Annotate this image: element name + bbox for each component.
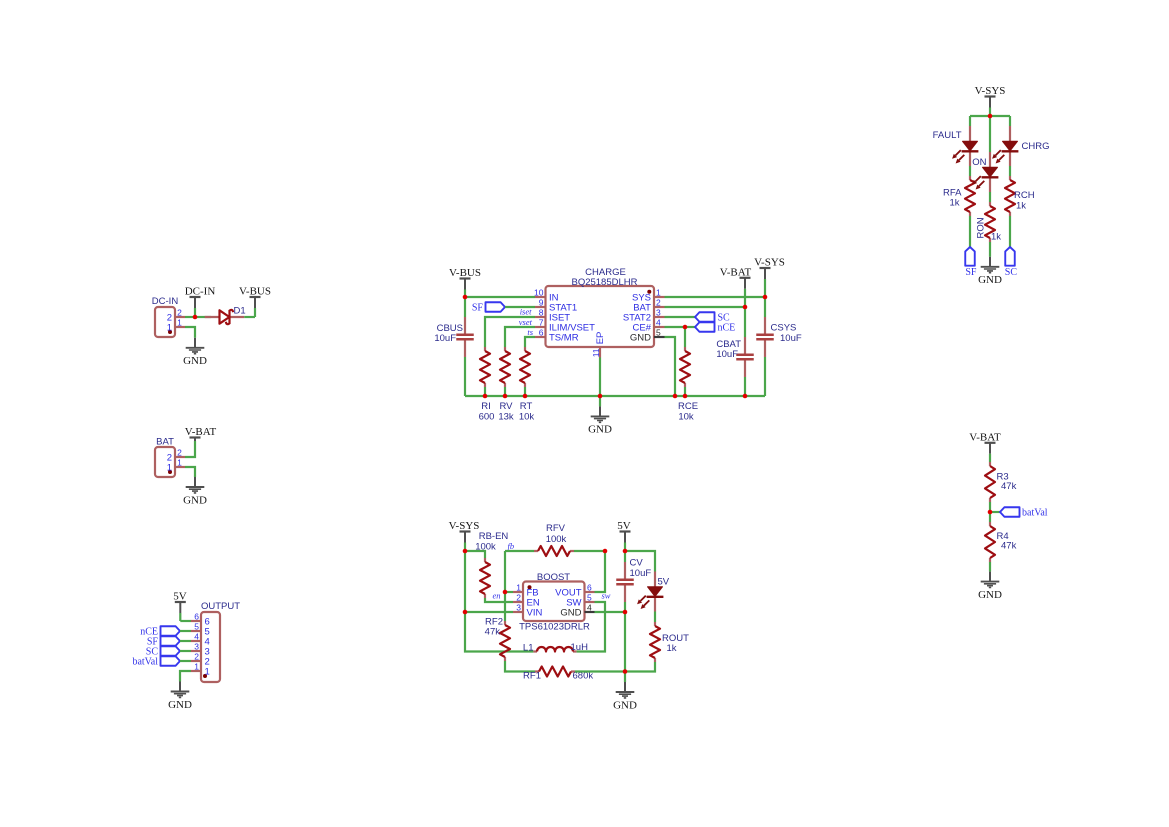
svg-text:V-BAT: V-BAT: [969, 431, 1001, 443]
wire 5V down to CV: [624, 551, 626, 562]
junction boost GND rail: [623, 669, 628, 674]
junction V-BUS node: [463, 295, 468, 300]
svg-text:4: 4: [194, 632, 199, 642]
resistor RON 1k: [976, 202, 1002, 243]
LED 5V indicator: [637, 572, 670, 612]
wire CBAT to rail: [744, 377, 746, 396]
junction VIN node: [463, 610, 468, 615]
svg-text:GND: GND: [183, 355, 207, 367]
capacitor CBAT: [716, 337, 753, 377]
svg-text:1: 1: [167, 462, 172, 473]
junction RI rail: [483, 394, 488, 399]
wire GND pin5 to rail: [665, 337, 676, 396]
svg-text:RB-EN: RB-EN: [479, 531, 509, 542]
wire junction to D1 anode: [195, 316, 211, 318]
svg-text:8: 8: [539, 308, 544, 318]
resistor RI 600: [479, 347, 495, 423]
svg-text:47k: 47k: [485, 627, 501, 638]
svg-text:OUTPUT: OUTPUT: [201, 601, 240, 612]
connector BAT pin 2: [167, 448, 185, 464]
svg-text:RF1: RF1: [523, 671, 541, 682]
svg-text:ON: ON: [972, 157, 986, 168]
hier label SC below RCH: [1005, 247, 1018, 278]
svg-text:TS/MR: TS/MR: [549, 333, 579, 344]
wire ILIM/VSET to RV: [505, 327, 535, 347]
svg-text:V-BAT: V-BAT: [720, 266, 752, 278]
svg-text:2: 2: [177, 448, 182, 458]
wire V-BUS down to CBUS: [464, 297, 466, 317]
resistor RV 13k: [498, 347, 514, 423]
svg-text:L1: L1: [523, 643, 534, 654]
svg-text:sw: sw: [602, 591, 611, 601]
svg-text:BQ25185DLHR: BQ25185DLHR: [571, 277, 637, 288]
power flag V-BAT at charger: [720, 266, 752, 307]
junction SYS node: [763, 295, 768, 300]
resistor RFV 100k: [534, 523, 574, 556]
resistor R3 47k: [985, 462, 1017, 502]
connector DC-IN pin 1: [167, 318, 185, 334]
wire to FAULT LED: [969, 116, 971, 126]
net label ts: [527, 327, 533, 337]
wire charger ground rail: [465, 395, 765, 397]
svg-text:DC-IN: DC-IN: [185, 286, 216, 298]
wire CE# down to RCE: [684, 327, 686, 347]
svg-text:10uF: 10uF: [630, 568, 652, 579]
wire SF to STAT1 pin: [505, 306, 535, 308]
wire BAT pin2 to V-BAT: [185, 448, 195, 457]
wire SC to pin: [180, 650, 191, 652]
svg-text:fb: fb: [508, 541, 515, 551]
svg-text:ts: ts: [527, 327, 533, 337]
connector BAT outline: [155, 437, 175, 478]
svg-text:V-SYS: V-SYS: [975, 85, 1006, 97]
IC CHARGE pin 8 ISET: [535, 308, 570, 324]
svg-text:SF: SF: [472, 303, 484, 314]
svg-text:GND: GND: [613, 699, 637, 711]
net label en: [492, 591, 500, 601]
wire 5V to pin6: [180, 620, 191, 622]
svg-text:1: 1: [177, 318, 182, 328]
power flag V-BUS at D1: [239, 286, 271, 318]
diode D1 (Schottky): [205, 306, 246, 325]
svg-text:EP: EP: [595, 332, 606, 345]
capacitor CSYS: [756, 317, 802, 357]
ground GND at DC-IN: [183, 338, 207, 367]
connector OUTPUT pin 6: [191, 612, 210, 628]
junction batVal node: [988, 510, 993, 515]
svg-text:4: 4: [587, 603, 592, 613]
svg-text:V-BUS: V-BUS: [239, 286, 271, 298]
svg-text:100k: 100k: [475, 542, 496, 553]
wire CV node down to rail: [624, 612, 626, 672]
svg-text:nCE: nCE: [718, 323, 736, 334]
svg-text:10k: 10k: [678, 412, 694, 423]
svg-text:1: 1: [194, 662, 199, 672]
net label iset: [520, 307, 532, 317]
junction RT rail: [523, 394, 528, 399]
wire LED to ROUT: [654, 612, 656, 623]
wire ISET to RI: [485, 317, 535, 347]
svg-text:9: 9: [539, 298, 544, 308]
svg-text:10k: 10k: [519, 412, 535, 423]
wire RI to rail: [484, 387, 486, 396]
ground GND at BAT: [183, 477, 207, 506]
svg-text:BAT: BAT: [156, 437, 174, 448]
wire FAULT LED to RFA: [969, 166, 971, 176]
svg-text:1k: 1k: [1016, 201, 1026, 212]
wire VOUT node down to pin: [595, 551, 606, 592]
connector OUTPUT pin 4: [191, 632, 210, 648]
IC BOOST pin 3 VIN: [513, 603, 542, 619]
svg-text:100k: 100k: [546, 534, 567, 545]
wire RON to GND: [989, 242, 991, 257]
svg-text:3: 3: [194, 642, 199, 652]
ground GND at boost: [613, 672, 637, 712]
resistor RFA 1k: [943, 176, 975, 216]
junction CV-GND node: [623, 610, 628, 615]
hier label nCE at OUTPUT: [140, 626, 180, 637]
svg-text:1: 1: [516, 583, 521, 593]
svg-text:SC: SC: [1005, 267, 1018, 278]
junction V-SYS LED node: [988, 114, 993, 119]
svg-text:10uF: 10uF: [780, 333, 802, 344]
power flag 5V at OUTPUT: [173, 591, 187, 622]
connector DC-IN outline: [152, 296, 179, 337]
svg-text:2: 2: [656, 298, 661, 308]
wire RFV to VOUT node: [574, 550, 605, 552]
svg-text:600: 600: [479, 412, 495, 423]
svg-text:RT: RT: [520, 401, 533, 412]
wire D1 cathode to V-BUS: [244, 316, 255, 318]
wire VIN junction to pin: [465, 611, 513, 613]
svg-text:1: 1: [167, 322, 172, 333]
connector BAT pin 1: [167, 458, 185, 474]
power flag V-BAT at BAT: [185, 426, 217, 448]
svg-text:47k: 47k: [1001, 541, 1017, 552]
wire CBUS to ground rail: [464, 357, 466, 396]
svg-text:10uF: 10uF: [434, 333, 456, 344]
svg-text:1: 1: [205, 667, 210, 678]
power flag V-SYS at LEDs: [975, 85, 1006, 116]
wire R4 to GND: [989, 562, 991, 572]
net label fb: [508, 541, 515, 551]
wire fb rail to RFV: [505, 550, 534, 552]
wire RB-EN to EN pin: [485, 598, 513, 602]
svg-text:TPS61023DRLR: TPS61023DRLR: [519, 622, 590, 633]
ground GND at divider: [978, 572, 1002, 601]
wire CV to pin4 node: [624, 602, 626, 612]
svg-text:5: 5: [656, 328, 661, 338]
svg-text:RI: RI: [481, 401, 491, 412]
svg-text:5: 5: [587, 593, 592, 603]
junction EP rail: [598, 394, 603, 399]
resistor R4 47k: [985, 522, 1017, 562]
resistor RCH 1k: [1005, 176, 1035, 216]
svg-text:6: 6: [587, 583, 592, 593]
svg-text:7: 7: [539, 318, 544, 328]
junction pin5 rail: [673, 394, 678, 399]
svg-text:batVal: batVal: [1022, 508, 1048, 519]
connector OUTPUT pin 2: [191, 652, 210, 668]
wire junction to R4: [989, 512, 991, 522]
power flag V-BAT at divider: [969, 431, 1001, 462]
hier label nCE at CE#: [695, 322, 735, 333]
svg-text:GND: GND: [978, 274, 1002, 286]
resistor RT 10k: [519, 347, 535, 423]
svg-text:GND: GND: [560, 608, 581, 619]
wire L1 to SW pin: [577, 602, 605, 652]
svg-text:CHRG: CHRG: [1022, 141, 1050, 152]
svg-text:RFV: RFV: [546, 523, 566, 534]
junction 5V node: [623, 549, 628, 554]
LED FAULT: [933, 126, 979, 166]
power flag 5V at boost: [617, 520, 631, 551]
IC BOOST TPS61023DRLR body: [523, 582, 585, 622]
svg-text:V-BAT: V-BAT: [185, 426, 217, 438]
resistor RCE 10k: [678, 347, 698, 423]
wire fb vertical: [504, 551, 506, 592]
svg-text:10uF: 10uF: [716, 349, 738, 360]
power flag V-BUS at charger: [449, 267, 481, 297]
connector OUTPUT pin 5: [191, 622, 210, 638]
hier label SF at STAT1: [472, 302, 505, 313]
svg-text:GND: GND: [168, 699, 192, 711]
wire SYS pin to V-SYS: [665, 296, 766, 298]
wire RT to rail: [524, 387, 526, 396]
IC BOOST value label TPS61023DRLR: [519, 622, 590, 633]
wire CSYS to rail corner: [764, 357, 766, 396]
svg-text:RCH: RCH: [1014, 190, 1035, 201]
connector OUTPUT pin 1: [191, 662, 210, 678]
IC CHARGE pin 10 IN: [534, 288, 559, 304]
wire RV to rail: [504, 387, 506, 396]
wire to CHRG LED: [1009, 116, 1011, 126]
wire CE# pin to junction: [665, 326, 686, 328]
ground GND at charger: [588, 396, 612, 436]
wire RCE to rail: [684, 387, 686, 396]
junction RV rail: [503, 394, 508, 399]
wire EP pin to rail: [599, 358, 601, 397]
wire ROUT to rail: [625, 662, 655, 672]
svg-text:6: 6: [539, 328, 544, 338]
svg-text:5: 5: [194, 622, 199, 632]
svg-text:BOOST: BOOST: [537, 572, 570, 583]
svg-text:GND: GND: [630, 333, 651, 344]
wire SF to pin: [180, 640, 191, 642]
wire RF1 to GND node: [575, 670, 625, 672]
svg-text:6: 6: [194, 612, 199, 622]
svg-text:V-SYS: V-SYS: [754, 257, 785, 269]
IC CHARGE reference label: [585, 267, 626, 278]
IC CHARGE pin 6 TS/MR: [535, 328, 579, 344]
svg-text:3: 3: [656, 308, 661, 318]
svg-text:batVal: batVal: [132, 657, 158, 668]
power flag DC-IN: [185, 286, 216, 318]
net label sw: [602, 591, 611, 601]
junction VOUT node: [603, 549, 608, 554]
connector OUTPUT outline: [201, 601, 240, 682]
wire V-SYS to RB-EN: [465, 551, 485, 558]
hier label SC at STAT2: [695, 312, 730, 323]
svg-text:5V: 5V: [658, 577, 670, 588]
ground GND at LEDs: [978, 257, 1002, 286]
wire GND pin4 to CV node: [595, 611, 626, 613]
wire VIN down to L1 row: [465, 612, 533, 652]
svg-text:1k: 1k: [667, 643, 677, 654]
IC CHARGE BQ25185DLHR body: [546, 286, 655, 347]
hier label SF below RFA: [965, 247, 977, 278]
IC CHARGE pin 3 STAT2: [623, 308, 665, 324]
wire DC-IN pin2 to junction: [185, 316, 195, 318]
IC CHARGE pin 5 GND: [630, 328, 665, 344]
svg-text:11: 11: [591, 348, 601, 357]
IC CHARGE pin 4 CE#: [633, 318, 665, 334]
wire CE# junction to nCE: [685, 326, 695, 328]
IC CHARGE pin 2 BAT: [633, 298, 664, 314]
svg-text:vset: vset: [519, 317, 533, 327]
svg-text:3: 3: [516, 603, 521, 613]
IC CHARGE pin 7 ILIM/VSET: [535, 318, 595, 334]
wire STAT2 to SC: [665, 316, 696, 318]
svg-text:1: 1: [656, 288, 661, 298]
svg-text:2: 2: [177, 308, 182, 318]
net label vset: [519, 317, 533, 327]
resistor RB-EN 100k: [475, 531, 508, 598]
svg-text:GND: GND: [588, 424, 612, 436]
wire junction to batVal label: [990, 511, 1000, 513]
capacitor CV: [616, 558, 651, 603]
IC CHARGE pin 11 EP: [591, 332, 606, 358]
IC BOOST pin 5 SW: [566, 593, 594, 609]
IC CHARGE pin 1 SYS: [632, 288, 665, 304]
wire TS/MR to RT: [525, 337, 535, 347]
junction BAT node: [743, 305, 748, 310]
svg-text:RV: RV: [499, 401, 513, 412]
svg-text:D1: D1: [234, 306, 246, 317]
IC BOOST pin 4 GND: [560, 603, 594, 619]
wire FB down to RF2: [504, 592, 506, 621]
wire RCH to SC label: [1009, 216, 1011, 247]
LED ON: [972, 152, 998, 192]
svg-text:2: 2: [516, 593, 521, 603]
wire LED top rail: [970, 115, 1010, 117]
wire V-BUS to IN pin: [465, 296, 535, 298]
svg-text:SF: SF: [965, 267, 977, 278]
IC CHARGE value label BQ25185DLHR: [571, 277, 637, 288]
svg-text:1k: 1k: [949, 198, 959, 209]
svg-text:1: 1: [177, 458, 182, 468]
wire V-BAT down to CBAT: [744, 307, 746, 337]
power flag V-SYS at charger: [754, 257, 785, 298]
wire R3 to junction: [989, 502, 991, 512]
wire pin1 to GND: [180, 671, 191, 682]
wire BAT pin1 to GND: [185, 467, 195, 477]
wire to ON LED: [989, 116, 991, 152]
svg-text:4: 4: [656, 318, 661, 328]
svg-text:10: 10: [534, 288, 544, 298]
svg-text:VIN: VIN: [527, 608, 543, 619]
wire nCE to pin: [180, 630, 191, 632]
wire FB node to pin: [505, 591, 513, 593]
junction V-SYS boost node: [463, 549, 468, 554]
resistor RF1 680k: [523, 667, 593, 682]
junction CE# node: [683, 325, 688, 330]
svg-text:iset: iset: [520, 307, 532, 317]
junction RCE rail: [683, 394, 688, 399]
wire CHRG LED to RCH: [1009, 166, 1011, 176]
svg-text:CSYS: CSYS: [771, 323, 797, 334]
svg-text:2: 2: [194, 652, 199, 662]
hier label batVal: [1000, 507, 1048, 518]
svg-text:FAULT: FAULT: [933, 130, 962, 141]
svg-text:V-BUS: V-BUS: [449, 267, 481, 279]
LED CHRG: [992, 126, 1049, 166]
wire BAT pin to V-BAT: [665, 306, 746, 308]
wire ON LED to RON: [989, 192, 991, 202]
IC BOOST pin 1 FB: [513, 583, 539, 599]
hier label SC at OUTPUT: [146, 646, 180, 657]
wire V-SYS down to CSYS: [764, 297, 766, 317]
svg-text:CV: CV: [630, 558, 644, 569]
svg-text:RON: RON: [976, 217, 987, 238]
svg-text:GND: GND: [183, 494, 207, 506]
svg-text:RCE: RCE: [678, 401, 698, 412]
svg-text:13k: 13k: [498, 412, 514, 423]
connector DC-IN pin 2: [167, 308, 185, 324]
resistor RF2 47k: [485, 617, 510, 662]
svg-text:47k: 47k: [1001, 481, 1017, 492]
junction FB node: [503, 590, 508, 595]
IC CHARGE pin 9 STAT1: [535, 298, 577, 314]
svg-text:en: en: [492, 591, 500, 601]
IC BOOST reference label: [537, 572, 570, 583]
svg-text:5V: 5V: [173, 591, 187, 603]
hier label batVal at OUTPUT: [132, 656, 180, 667]
wire DC-IN pin1 to GND: [185, 327, 195, 338]
junction DC-IN node: [193, 315, 198, 320]
wire RF2 to bottom rail: [505, 661, 535, 672]
wire RFA to SF label: [969, 216, 971, 247]
svg-text:5V: 5V: [617, 520, 631, 532]
wire V-SYS down to VIN: [464, 551, 466, 612]
junction CBAT rail: [743, 394, 748, 399]
hier label SF at OUTPUT: [147, 636, 180, 647]
connector OUTPUT pin 3: [191, 642, 210, 658]
wire 5V rail to LED: [625, 551, 655, 572]
IC BOOST pin 6 VOUT: [555, 583, 594, 599]
IC BOOST pin 2 EN: [513, 593, 540, 609]
wire batVal to pin: [180, 660, 191, 662]
capacitor CBUS: [434, 317, 473, 357]
resistor ROUT 1k: [650, 622, 689, 662]
power flag V-SYS at boost: [449, 520, 480, 551]
inductor L1 1uH: [523, 642, 588, 654]
svg-text:1k: 1k: [991, 232, 1001, 243]
svg-text:GND: GND: [978, 589, 1002, 601]
svg-text:DC-IN: DC-IN: [152, 296, 179, 307]
svg-text:V-SYS: V-SYS: [449, 520, 480, 532]
ground GND at OUTPUT: [168, 682, 192, 711]
